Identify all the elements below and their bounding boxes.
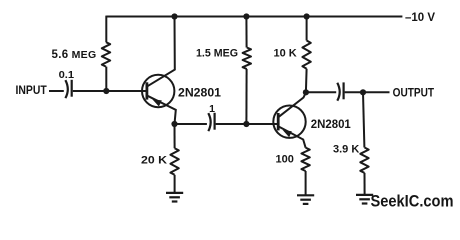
resistor R2 20 K — [170, 124, 178, 193]
wire C3 to OUTPUT — [345, 91, 390, 93]
wire Q1 collector to rail — [148, 17, 175, 87]
svg-text:5.6 MEG: 5.6 MEG — [52, 49, 97, 61]
svg-text:3.9 K: 3.9 K — [333, 144, 359, 156]
svg-text:20 K: 20 K — [141, 155, 167, 167]
svg-text:1: 1 — [209, 103, 215, 115]
resistor R3 1.5 MEG — [243, 17, 251, 125]
svg-text:2N2801: 2N2801 — [311, 119, 352, 131]
resistor R1 5.6 MEG — [102, 16, 110, 91]
resistor R4 10 K — [302, 17, 310, 93]
transistor Q1 emitter arrow (PNP) — [152, 99, 162, 106]
node B junction Q1 emitter / R2 / C2 — [171, 121, 177, 127]
svg-text:1.5 MEG: 1.5 MEG — [196, 48, 238, 60]
resistor R6 3.9 K — [360, 92, 368, 195]
node D junction R4 / Q2 collector / C3 — [303, 89, 309, 95]
transistor Q2 base bar — [277, 113, 280, 130]
svg-text:0.1: 0.1 — [59, 70, 75, 81]
node on rail for Q1 collector — [171, 13, 177, 19]
wire C1 to Q1 base — [73, 90, 147, 92]
wire top -10V supply rail — [106, 16, 402, 18]
resistor R5 100 — [301, 148, 309, 196]
wire node B to C2 — [175, 123, 207, 125]
wire input lead to C1 — [49, 90, 64, 92]
ground G3 under R6 — [356, 195, 373, 204]
ground G2 under R5 — [297, 195, 314, 204]
wire C2 to Q2 base — [216, 123, 279, 125]
node E junction C3 / R6 / output — [360, 89, 366, 95]
transistor Q2 2N2801 circle — [273, 106, 305, 138]
capacitor C3 output coupling — [337, 82, 343, 100]
ground G1 under R2 — [166, 193, 183, 202]
svg-text:INPUT: INPUT — [16, 85, 47, 97]
svg-text:–10 V: –10 V — [405, 12, 435, 24]
wire node D to C3 — [306, 91, 336, 93]
wire Q2 emitter to R5 — [279, 127, 306, 148]
svg-text:100: 100 — [276, 154, 294, 166]
transistor Q1 2N2801 circle — [142, 75, 174, 107]
node on rail for R4 — [304, 13, 310, 19]
node on rail for R3 — [243, 13, 249, 19]
svg-text:SeekIC.com: SeekIC.com — [371, 192, 454, 211]
wire Q1 emitter to node B — [148, 96, 176, 124]
capacitor C2 1uF interstage coupling — [208, 113, 214, 131]
capacitor C1 0.1 input coupling — [65, 80, 71, 98]
transistor Q2 emitter arrow (PNP) — [283, 130, 292, 137]
node C junction R3 / C2 / Q2 base — [243, 121, 249, 127]
svg-text:10 K: 10 K — [274, 48, 297, 60]
wire Q2 collector to node D — [279, 92, 306, 117]
node A junction of C1, R1, Q1 base — [103, 88, 109, 94]
svg-text:2N2801: 2N2801 — [178, 88, 222, 100]
transistor Q1 base bar — [145, 82, 148, 99]
svg-text:OUTPUT: OUTPUT — [393, 87, 435, 99]
